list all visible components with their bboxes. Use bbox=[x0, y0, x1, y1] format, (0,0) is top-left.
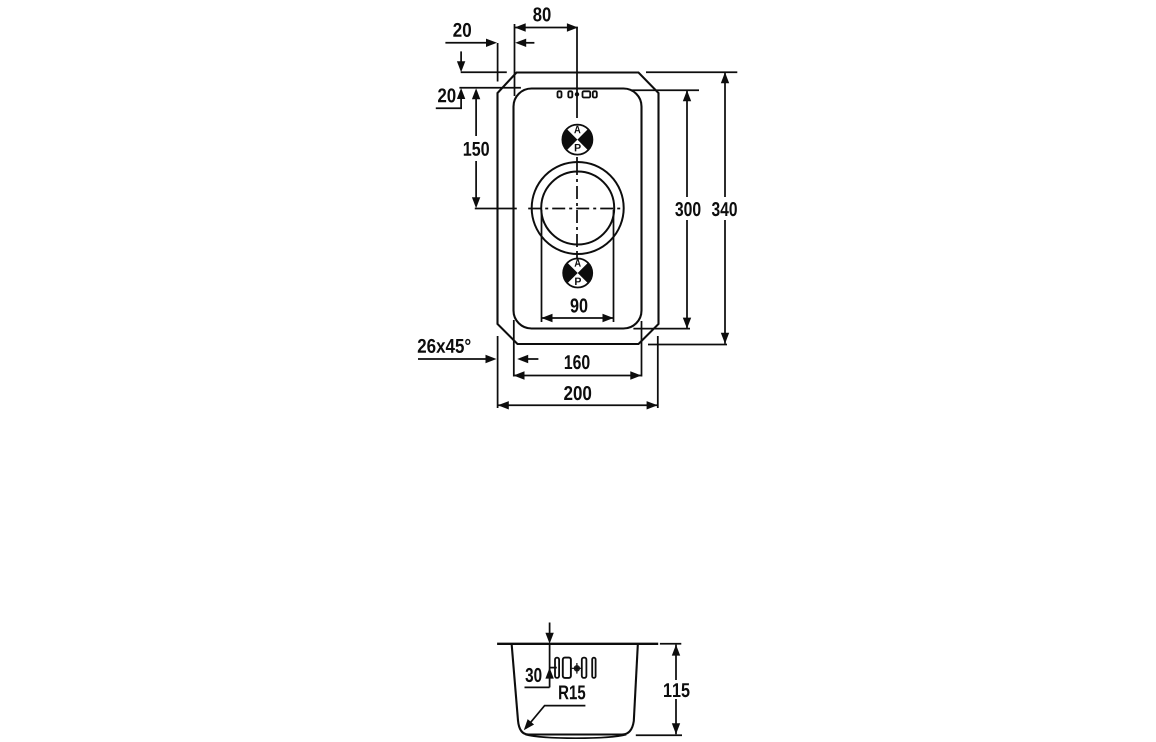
dimension text 90 bbox=[571, 298, 588, 312]
dimension text 30 bbox=[525, 668, 541, 682]
section: bottom recess arc bbox=[526, 735, 627, 739]
fixing slot 3 wide (plan) bbox=[583, 91, 591, 97]
section fixing slot S3 bbox=[582, 658, 587, 678]
dimension text 150 bbox=[464, 142, 489, 156]
dimension 150 bbox=[472, 88, 480, 99]
datum target symbol lower (A/P) bbox=[563, 259, 592, 288]
dimension 115 bbox=[660, 643, 681, 645]
dimension text 300 bbox=[675, 202, 700, 216]
fixing slot 1 (plan) bbox=[558, 91, 562, 97]
dimension text 20 left bbox=[438, 88, 455, 102]
dimension text 20 top bbox=[453, 23, 471, 37]
sink outer rim outline (plan view, chamfered octagon) bbox=[498, 73, 659, 345]
dimension 340 bbox=[646, 71, 737, 73]
chamfer text 26x45 bbox=[418, 339, 471, 353]
vertical centerline dash-dot through drain bbox=[576, 162, 578, 254]
section center target bbox=[572, 663, 583, 674]
dimension 20 top (rim width) bbox=[445, 42, 487, 44]
dimension 90 bbox=[541, 210, 543, 322]
R15 leader bbox=[526, 706, 586, 729]
vertical centerline segment below drain bbox=[576, 254, 578, 259]
horizontal centerline dash-dot of drain bbox=[528, 208, 624, 210]
fixing slot 4 (plan) bbox=[593, 91, 597, 97]
dimension 80 bbox=[515, 27, 578, 29]
dimension text 80 bbox=[533, 7, 550, 21]
dimension text 160 bbox=[565, 355, 590, 369]
section: rim line bbox=[497, 643, 658, 645]
datum letter A upper bbox=[574, 126, 580, 133]
datum target symbol upper (A/P) bbox=[562, 125, 592, 155]
inner bowl outline (plan view, rounded rect) bbox=[514, 89, 642, 329]
section fixing slot S1 bbox=[555, 658, 559, 678]
vertical centerline upper segment bbox=[576, 28, 578, 119]
datum letter P lower bbox=[575, 278, 581, 285]
fixing slot 2 (plan) bbox=[568, 91, 572, 97]
depth reference arrow at rim bbox=[549, 623, 551, 636]
datum letter P upper bbox=[575, 144, 581, 151]
vertical centerline segment above drain bbox=[576, 157, 578, 162]
dimension 160 bbox=[513, 320, 515, 377]
dimension 300 bbox=[632, 89, 699, 91]
section: bowl profile bbox=[512, 645, 638, 735]
datum letter A lower bbox=[575, 259, 581, 266]
dimension 200 bbox=[497, 336, 499, 408]
dimension text 115 bbox=[664, 683, 690, 697]
dimension text 340 bbox=[712, 202, 737, 216]
radius text R15 bbox=[559, 685, 585, 699]
section fixing slot S2 wide bbox=[563, 658, 571, 678]
dimension text 200 bbox=[564, 386, 591, 400]
dimension 30 bbox=[549, 644, 551, 688]
drain hole inner circle bbox=[541, 172, 614, 245]
drain outer circle bbox=[532, 162, 624, 254]
chamfer callout 26x45 bbox=[418, 358, 486, 360]
center dot (plan) bbox=[575, 92, 579, 96]
dimension 20 left (rim depth) bbox=[460, 51, 462, 63]
section fixing slot S4 bbox=[592, 658, 595, 678]
